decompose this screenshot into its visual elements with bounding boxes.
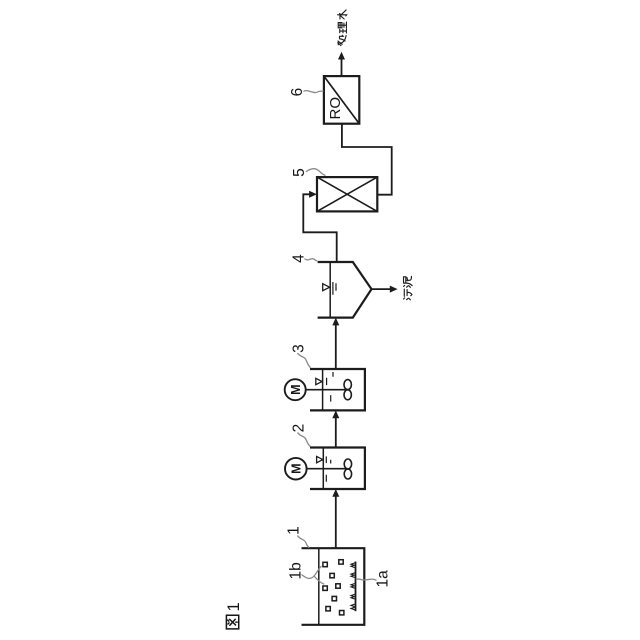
arrowhead into unit5 [309, 191, 317, 198]
water level mark tank2 [317, 456, 323, 462]
water line tank1 [318, 548, 320, 625]
svg-text:1b: 1b [288, 562, 305, 579]
filter unit 5 (box with cross) [317, 177, 377, 211]
pipe clarifier to unit5 [303, 194, 336, 262]
propeller tank3 [344, 390, 351, 400]
shaft tank2 [307, 468, 348, 470]
arrowhead into tank3 [332, 410, 339, 418]
leader 6 [304, 91, 324, 93]
svg-text:M: M [289, 384, 303, 394]
shaft tank3 [306, 389, 348, 391]
motor M2 [285, 458, 307, 480]
propeller tank2 [344, 469, 351, 479]
motor M3 [285, 379, 306, 400]
leader 1a [356, 579, 377, 580]
water line tank3 [322, 369, 324, 410]
svg-text:6: 6 [289, 88, 306, 97]
tank 3 [310, 369, 365, 410]
figure label 図1 [226, 615, 238, 629]
pipe tank3 to clarifier [335, 325, 337, 369]
leader 1 [298, 536, 310, 548]
water level mark clarifier [323, 284, 330, 291]
leader 4 [305, 259, 318, 261]
svg-text:5: 5 [291, 168, 308, 177]
aeration diffuser 1a [355, 562, 357, 612]
svg-text:1a: 1a [375, 570, 392, 588]
pipe unit5 to RO [342, 124, 392, 195]
svg-text:M: M [290, 463, 304, 473]
arrowhead into tank2 [332, 489, 339, 497]
water line tank2 [322, 448, 324, 490]
処理水 (treated water) text [338, 35, 346, 45]
leader 1b (forked) [302, 566, 322, 578]
arrowhead into clarifier [332, 318, 339, 326]
svg-text:2: 2 [291, 424, 308, 433]
svg-text:3: 3 [291, 344, 308, 353]
汚泥 (sludge) text [404, 289, 412, 300]
water level mark tank3 [316, 378, 322, 384]
pipe tank1 to tank2 [335, 496, 337, 548]
leader 5 [306, 169, 326, 176]
sludge arrow [372, 288, 391, 290]
suspended carriers 1b (small squares) [323, 560, 344, 615]
tank 1 [302, 548, 365, 625]
RO unit 6 [324, 76, 359, 124]
tank 2 [310, 448, 365, 490]
leader 3 [298, 353, 311, 368]
pipe tank2 to tank3 [335, 417, 337, 447]
svg-text:RO: RO [327, 97, 344, 120]
clarifier 4 (settling tank) [318, 262, 372, 318]
svg-text:1: 1 [286, 526, 303, 535]
outlet arrow (treated water) [341, 59, 343, 77]
svg-text:1: 1 [225, 602, 243, 611]
leader 2 [298, 433, 311, 447]
water line clarifier [329, 262, 331, 318]
